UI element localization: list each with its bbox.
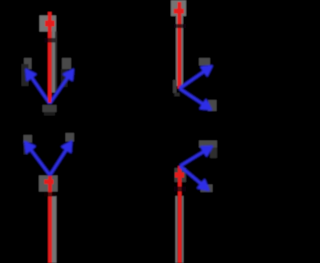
black bond bar BL bbox=[44, 192, 56, 196]
red dipole arrow TL (vertical line) bbox=[48, 12, 52, 104]
label halo below vertex TL bbox=[43, 105, 57, 112]
red cross bar BL bbox=[44, 180, 53, 185]
bond dipole arrow BL left bbox=[25, 142, 50, 175]
red dipole arrow BL (vertical line) bbox=[48, 176, 52, 263]
label halo H right TL bbox=[62, 58, 71, 69]
label halo H left BL bbox=[24, 135, 33, 143]
label halo H left TL bbox=[24, 58, 32, 69]
black bond bar BR bbox=[174, 187, 186, 192]
bond halo band TR vertical bbox=[176, 16, 178, 86]
label halo upper-right TR bbox=[199, 58, 210, 66]
bond dipole arrow BR lower bbox=[180, 166, 209, 190]
halo box of cross BL bbox=[39, 176, 58, 192]
red dipole arrow BR (vertical line) bbox=[178, 166, 182, 263]
bond halo band BR vertical bbox=[176, 196, 178, 263]
bond dipole arrow TL right bbox=[50, 70, 74, 104]
red dipole arrow TL tip overlay bbox=[48, 90, 51, 103]
red cross bar TR bbox=[174, 9, 184, 14]
label halo below vertex TR bbox=[174, 93, 179, 97]
bond dipole arrow TR upper bbox=[180, 66, 213, 89]
bond halo band BL vertical bbox=[52, 196, 57, 263]
black bond bar TR bbox=[174, 24, 186, 28]
halo box of cross BR bbox=[175, 168, 187, 182]
label halo lower-right BR bbox=[201, 185, 213, 193]
red cross bar BR bbox=[175, 173, 184, 178]
bond dipole arrow TR lower bbox=[180, 89, 212, 110]
wire none: background bbox=[0, 0, 220, 263]
red cross bar TL bbox=[45, 21, 55, 27]
black bond bar TL bbox=[45, 38, 56, 43]
red dipole arrow TR (vertical line) bbox=[177, 2, 181, 89]
bond dipole arrow BR upper bbox=[180, 147, 212, 167]
label halo H right BL bbox=[66, 133, 75, 142]
halo box of cross TL bbox=[40, 16, 57, 32]
label halo upper-right BR bbox=[199, 141, 217, 148]
bond dipole arrow TL left bbox=[26, 70, 50, 104]
halo box of cross TR bbox=[171, 0, 186, 16]
bond dipole arrow BL right bbox=[50, 142, 72, 176]
label halo left of vertex TR bbox=[173, 80, 177, 93]
label halo lower-right TR bbox=[208, 100, 217, 111]
bond halo band TL vertical bbox=[52, 32, 56, 93]
